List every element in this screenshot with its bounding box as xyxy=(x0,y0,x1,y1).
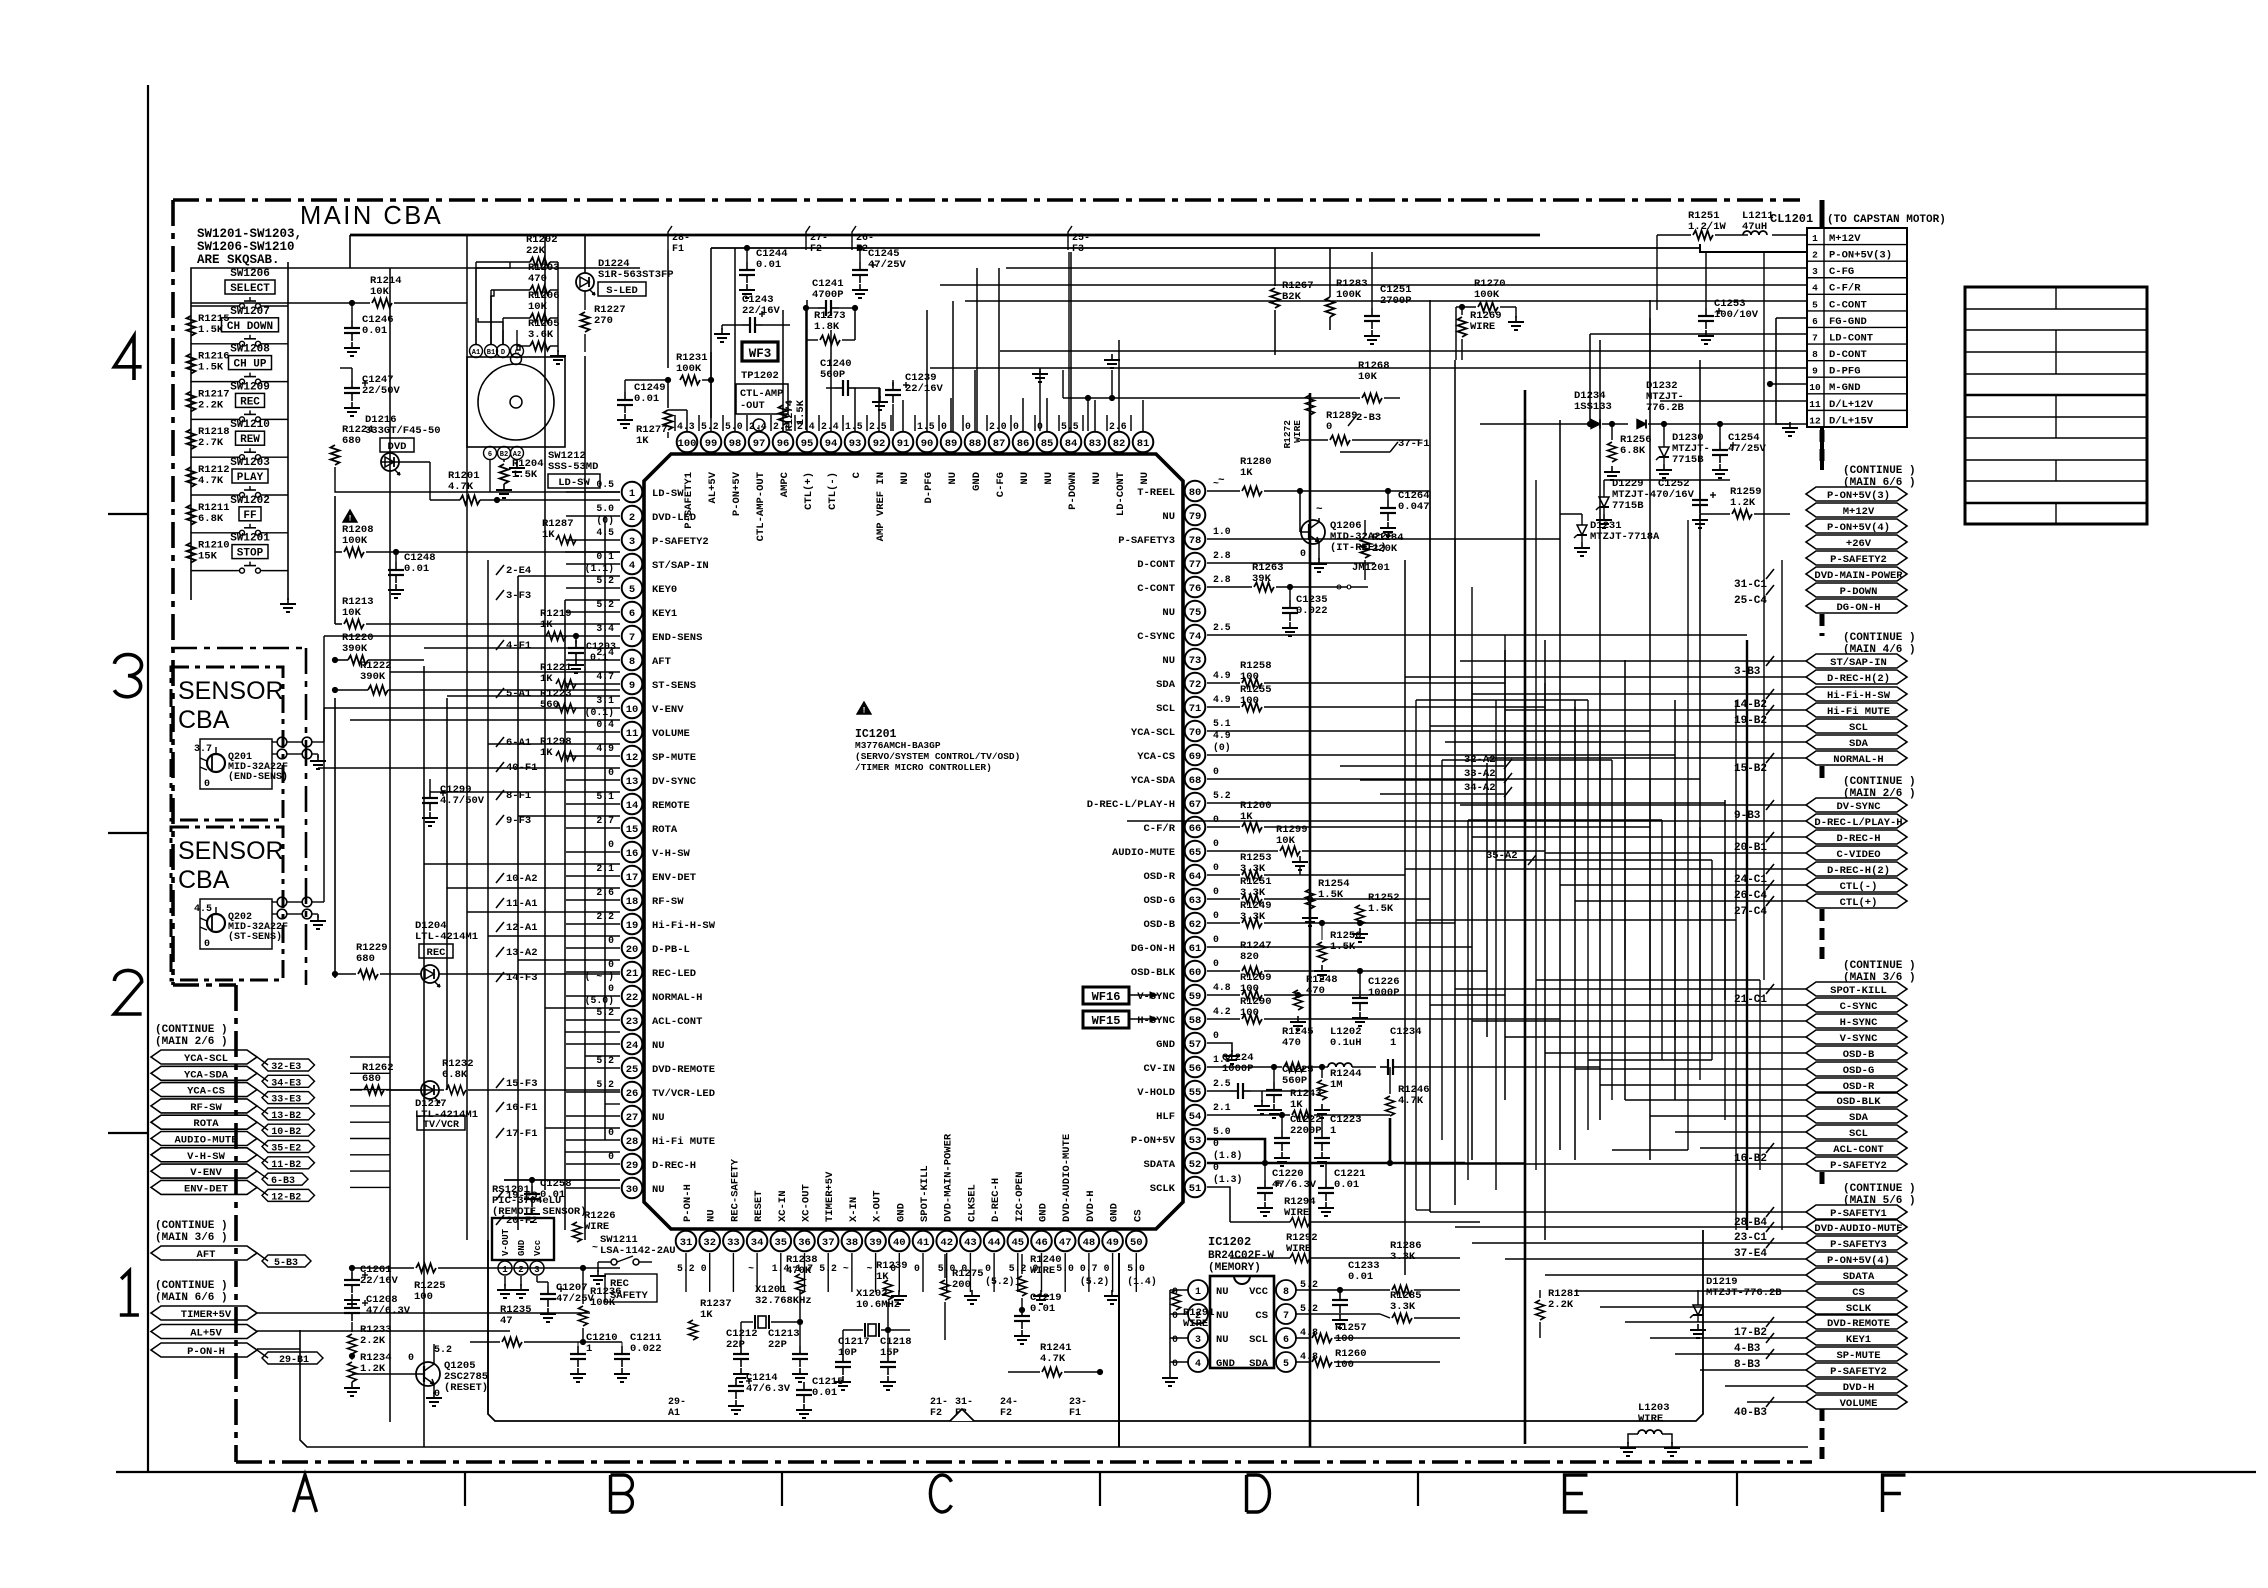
resistor R1215 xyxy=(187,316,196,336)
svg-text:(MAIN 3/6 ): (MAIN 3/6 ) xyxy=(155,1232,228,1244)
pin57 ground xyxy=(1207,1043,1232,1052)
svg-text:7: 7 xyxy=(1812,332,1818,343)
resistor R1218 xyxy=(187,429,196,449)
svg-text:6.8K: 6.8K xyxy=(198,513,224,525)
tag 28-F1 xyxy=(668,226,672,250)
svg-text:59: 59 xyxy=(1189,991,1202,1003)
tag 25-F3 xyxy=(1068,226,1072,250)
svg-text:89: 89 xyxy=(945,438,958,450)
svg-text:27: 27 xyxy=(626,1112,639,1124)
svg-text:3.7: 3.7 xyxy=(194,744,212,755)
svg-text:~: ~ xyxy=(843,1263,849,1274)
svg-text:0: 0 xyxy=(608,983,614,994)
svg-text:(1.8): (1.8) xyxy=(1213,1150,1242,1161)
svg-text:32.768KHz: 32.768KHz xyxy=(755,1295,812,1307)
svg-text:X-IN: X-IN xyxy=(848,1197,860,1222)
svg-text:73: 73 xyxy=(1189,655,1202,667)
sensor ground xyxy=(312,913,318,915)
svg-text:V-OUT: V-OUT xyxy=(501,1228,511,1256)
IC1201 pin 67 D-REC-L/PLAY-H xyxy=(1185,793,1206,814)
svg-text:P-ON+5V(4): P-ON+5V(4) xyxy=(1827,1255,1890,1267)
svg-text:LD-CONT: LD-CONT xyxy=(1829,332,1873,344)
wire vertical bus x390 xyxy=(389,268,391,1422)
svg-text:25: 25 xyxy=(626,1064,639,1076)
blank revision table xyxy=(1965,287,2147,524)
svg-text:27-C4: 27-C4 xyxy=(1734,906,1767,918)
svg-text:SW1201: SW1201 xyxy=(230,533,270,545)
svg-text:29-B1: 29-B1 xyxy=(279,1355,309,1366)
net label Hi-Fi MUTE xyxy=(1806,703,1907,717)
svg-text:680: 680 xyxy=(342,435,361,447)
svg-text:12-A1: 12-A1 xyxy=(506,922,538,934)
IC1201 pin 99 AL+5V xyxy=(701,432,722,453)
svg-text:RF-SW: RF-SW xyxy=(190,1102,222,1114)
svg-text:WIRE: WIRE xyxy=(1183,1318,1208,1330)
svg-text:C-CONT: C-CONT xyxy=(1137,583,1175,595)
bottom loop wire A xyxy=(488,1230,1703,1421)
svg-text:M3776AMCH-BA3GP: M3776AMCH-BA3GP xyxy=(855,740,941,751)
svg-text:22/16V: 22/16V xyxy=(905,383,944,395)
svg-text:74: 74 xyxy=(1189,631,1202,643)
svg-text:1.5K: 1.5K xyxy=(795,399,807,425)
svg-text:22/16V: 22/16V xyxy=(360,1275,399,1287)
svg-text:1K: 1K xyxy=(700,1309,713,1321)
extra right grid horizontals xyxy=(1416,699,1588,701)
svg-text:(1.3): (1.3) xyxy=(1213,1174,1242,1185)
svg-text:9-F3: 9-F3 xyxy=(506,815,531,827)
IC1201 pin 4 ST/SAP-IN xyxy=(622,554,643,575)
net label P-ON-H xyxy=(151,1343,257,1357)
svg-text:10-B2: 10-B2 xyxy=(271,1127,301,1138)
svg-text:I2C-OPEN: I2C-OPEN xyxy=(1014,1172,1026,1222)
svg-text:37-F1: 37-F1 xyxy=(1398,438,1430,450)
net label DG-ON-H xyxy=(1806,599,1907,613)
net label SP-MUTE xyxy=(1806,1347,1907,1361)
svg-text:7715B: 7715B xyxy=(1612,500,1644,512)
svg-text:(MEMORY): (MEMORY) xyxy=(1208,1262,1261,1274)
svg-text:P-ON+5V: P-ON+5V xyxy=(731,471,743,516)
IC1201 pin 97 CTL-AMP-OUT xyxy=(749,432,770,453)
svg-text:LSA-1142-2AU: LSA-1142-2AU xyxy=(600,1245,676,1257)
IC1201 pin 87 C-FG xyxy=(989,432,1010,453)
net label P-SAFETY2 xyxy=(1806,1157,1907,1171)
svg-text:(END-SENS): (END-SENS) xyxy=(228,771,288,783)
IC1201 pin 66 C-F/R xyxy=(1185,817,1206,838)
svg-text:V-SYNC: V-SYNC xyxy=(1137,991,1176,1003)
svg-text:13-B2: 13-B2 xyxy=(271,1111,301,1122)
svg-text:680: 680 xyxy=(362,1073,381,1085)
svg-text:AFT: AFT xyxy=(197,1249,216,1261)
svg-text:51: 51 xyxy=(1189,1183,1202,1195)
svg-text:10K: 10K xyxy=(1276,835,1296,847)
svg-text:TP1202: TP1202 xyxy=(741,370,779,382)
IC1201 pin 50 CS xyxy=(1126,1231,1147,1252)
grounds under GND pins xyxy=(898,1290,900,1296)
svg-text:P-ON-H: P-ON-H xyxy=(682,1184,694,1222)
svg-text:P-SAFETY1: P-SAFETY1 xyxy=(1830,1208,1887,1220)
net label V-SYNC xyxy=(1806,1030,1907,1044)
svg-text:97: 97 xyxy=(753,438,766,450)
svg-text:200: 200 xyxy=(952,1279,971,1291)
net label DVD-H xyxy=(1806,1379,1907,1393)
IC1201 pin 19 Hi-Fi-H-SW xyxy=(622,914,643,935)
svg-text:D-PFG: D-PFG xyxy=(1829,366,1861,378)
svg-text:11: 11 xyxy=(626,728,639,740)
IC1201 pin 1 LD-SW xyxy=(622,482,643,503)
svg-text:27-: 27- xyxy=(810,233,828,244)
frame right vertical below title xyxy=(1820,200,1824,228)
svg-text:0: 0 xyxy=(1213,934,1219,945)
svg-text:5.1: 5.1 xyxy=(1213,718,1231,729)
svg-text:~: ~ xyxy=(1218,475,1225,487)
svg-text:100: 100 xyxy=(1335,1333,1354,1345)
svg-text:10: 10 xyxy=(1809,382,1821,393)
svg-text:4: 4 xyxy=(1195,1359,1201,1370)
IC1202 pin 1 xyxy=(1188,1280,1208,1300)
svg-text:D-REC-H(2): D-REC-H(2) xyxy=(1827,673,1890,685)
IC1201 pin 34 RESET xyxy=(747,1231,768,1252)
svg-text:680: 680 xyxy=(356,953,375,965)
wire pin52 thick xyxy=(1207,1162,1465,1165)
bottom pin stub wires xyxy=(685,1253,687,1292)
svg-text:1000P: 1000P xyxy=(1222,1063,1254,1075)
frame lower-left vertical dash-dot xyxy=(234,985,238,1462)
svg-text:(REMOTE SENSOR): (REMOTE SENSOR) xyxy=(492,1206,587,1218)
svg-text:NU: NU xyxy=(899,472,911,485)
IC1201 pin 26 TV/VCR-LED xyxy=(622,1082,643,1103)
frame left dash-dot xyxy=(171,200,175,985)
svg-text:C-VIDEO: C-VIDEO xyxy=(1836,849,1880,861)
svg-text:4: 4 xyxy=(1812,283,1818,294)
svg-text:1: 1 xyxy=(1390,1037,1396,1049)
svg-text:1: 1 xyxy=(1812,233,1818,244)
svg-text:CBA: CBA xyxy=(178,706,230,734)
sheet border vertical line xyxy=(147,85,149,1472)
frame top dash-dot xyxy=(173,198,1800,202)
svg-text:AMP VREF IN: AMP VREF IN xyxy=(875,472,887,541)
svg-text:LTL-4214M1: LTL-4214M1 xyxy=(415,931,478,943)
svg-text:37: 37 xyxy=(822,1237,835,1249)
svg-text:CBA: CBA xyxy=(178,866,230,894)
IC1201 pin 83 NU xyxy=(1085,432,1106,453)
svg-text:D-REC-H: D-REC-H xyxy=(652,1160,696,1172)
svg-text:F2: F2 xyxy=(810,244,822,255)
svg-text:F2: F2 xyxy=(856,244,868,255)
IC1201 pin 23 ACL-CONT xyxy=(622,1010,643,1031)
svg-text:AUDIO-MUTE: AUDIO-MUTE xyxy=(1112,847,1175,859)
svg-text:F2: F2 xyxy=(930,1408,942,1419)
svg-text:WF16: WF16 xyxy=(1092,990,1121,1004)
svg-text:2-E4: 2-E4 xyxy=(506,565,531,577)
svg-text:26-: 26- xyxy=(856,233,874,244)
svg-text:1K: 1K xyxy=(542,529,555,541)
svg-text:2.5: 2.5 xyxy=(1213,1078,1231,1089)
IC1201 pin 21 REC-LED xyxy=(622,962,643,983)
svg-text:3: 3 xyxy=(1195,1335,1201,1346)
left hex stack wires to bus xyxy=(350,1056,390,1058)
IC1201 pin 86 NU xyxy=(1013,432,1034,453)
svg-text:D-PB-L: D-PB-L xyxy=(652,944,690,956)
tag stubs left side xyxy=(496,565,504,575)
svg-text:19-B2: 19-B2 xyxy=(1734,715,1767,727)
svg-text:64: 64 xyxy=(1189,871,1202,883)
IC1201 pin 78 P-SAFETY3 xyxy=(1185,529,1206,550)
svg-text:B1: B1 xyxy=(487,349,495,357)
net label V-ENV xyxy=(151,1164,257,1178)
transistor Q201 xyxy=(200,739,272,789)
svg-text:SDA: SDA xyxy=(1156,679,1176,691)
svg-text:1000P: 1000P xyxy=(1368,987,1400,999)
IC1201 pin 13 DV-SYNC xyxy=(622,770,643,791)
svg-text:C-F/R: C-F/R xyxy=(1143,823,1175,835)
svg-text:0: 0 xyxy=(1213,814,1219,825)
svg-text:15-B2: 15-B2 xyxy=(1734,763,1767,775)
svg-text:(0): (0) xyxy=(1213,742,1231,753)
svg-text:6: 6 xyxy=(629,608,635,620)
svg-text:DG-ON-H: DG-ON-H xyxy=(1131,943,1175,955)
svg-text:91: 91 xyxy=(897,438,910,450)
svg-text:1.5K: 1.5K xyxy=(1368,903,1394,915)
svg-text:560P: 560P xyxy=(1282,1075,1307,1087)
svg-text:SDATA: SDATA xyxy=(1143,1159,1175,1171)
svg-text:1: 1 xyxy=(1330,1125,1336,1137)
svg-text:SW1206: SW1206 xyxy=(230,268,270,280)
svg-text:~: ~ xyxy=(1316,504,1323,516)
svg-text:RF-SW: RF-SW xyxy=(652,896,684,908)
wire timer5v run xyxy=(257,1312,352,1314)
svg-text:GND: GND xyxy=(1109,1203,1121,1222)
svg-text:DVD-AUDIO-MUTE: DVD-AUDIO-MUTE xyxy=(1061,1134,1073,1222)
IC1201 pin 94 CTL(-) xyxy=(821,432,842,453)
svg-text:36: 36 xyxy=(798,1237,811,1249)
IC1201 pin 53 P-ON+5V xyxy=(1185,1129,1206,1150)
svg-text:MAIN CBA: MAIN CBA xyxy=(300,202,443,230)
svg-text:~: ~ xyxy=(748,1263,754,1274)
svg-text:NU: NU xyxy=(652,1040,665,1052)
svg-text:32-E3: 32-E3 xyxy=(271,1062,301,1073)
svg-text:2.5: 2.5 xyxy=(1213,622,1231,633)
IC1202 pin 2 xyxy=(1188,1304,1208,1324)
IC1201 pin 90 D-PFG xyxy=(917,432,938,453)
svg-text:33: 33 xyxy=(727,1237,740,1249)
svg-text:CL1201: CL1201 xyxy=(1770,212,1813,226)
resistor R1211 xyxy=(187,505,196,525)
svg-text:22: 22 xyxy=(626,992,639,1004)
svg-text:33-A2: 33-A2 xyxy=(1464,768,1496,780)
sheet border bottom line xyxy=(116,1471,2256,1473)
svg-text:1.5K: 1.5K xyxy=(198,362,224,374)
svg-text:4.8: 4.8 xyxy=(1213,982,1231,993)
svg-text:5.0: 5.0 xyxy=(596,503,614,514)
svg-text:A1: A1 xyxy=(668,1408,680,1419)
svg-text:XC-OUT: XC-OUT xyxy=(801,1184,813,1222)
svg-text:13-A2: 13-A2 xyxy=(506,947,538,959)
IC1202 pin 5 xyxy=(1276,1352,1296,1372)
svg-text:2.2K: 2.2K xyxy=(198,399,224,411)
svg-text:0: 0 xyxy=(1300,549,1306,560)
svg-text:1.5: 1.5 xyxy=(845,421,863,432)
svg-text:0.01: 0.01 xyxy=(634,393,659,405)
svg-text:WF3: WF3 xyxy=(749,347,772,361)
IC1202 left rail xyxy=(1169,1290,1171,1362)
svg-text:1K: 1K xyxy=(540,747,553,759)
svg-text:TV/VCR-LED: TV/VCR-LED xyxy=(652,1088,715,1100)
svg-text:T-REEL: T-REEL xyxy=(1137,487,1175,499)
grid column ticks xyxy=(464,1472,466,1506)
svg-text:71: 71 xyxy=(1189,703,1202,715)
switch bank top wire xyxy=(191,268,640,300)
svg-text:IC1202: IC1202 xyxy=(1208,1235,1251,1249)
svg-text:SDA: SDA xyxy=(1249,1358,1269,1370)
IC1201 pin 38 X-IN xyxy=(842,1231,863,1252)
svg-text:2.5: 2.5 xyxy=(869,421,887,432)
svg-text:4.7/50V: 4.7/50V xyxy=(440,795,485,807)
svg-text:3: 3 xyxy=(1812,266,1818,277)
svg-text:YCA-CS: YCA-CS xyxy=(1137,751,1175,763)
svg-text:16-F1: 16-F1 xyxy=(506,1102,538,1114)
svg-text:(RESET): (RESET) xyxy=(444,1382,488,1394)
svg-text:58: 58 xyxy=(1189,1015,1202,1027)
svg-text:100K: 100K xyxy=(590,1297,616,1309)
net label ACL-CONT xyxy=(1806,1141,1907,1155)
svg-text:P-ON+5V(3): P-ON+5V(3) xyxy=(1827,490,1890,502)
horizontal pin wires to verticals xyxy=(1300,490,1430,492)
svg-text:(CONTINUE ): (CONTINUE ) xyxy=(1843,465,1916,477)
svg-text:76: 76 xyxy=(1189,583,1202,595)
IC1201 pin 46 GND xyxy=(1031,1231,1052,1252)
svg-text:WIRE: WIRE xyxy=(1638,1413,1663,1425)
svg-text:15-F3: 15-F3 xyxy=(506,1078,538,1090)
svg-text:(CONTINUE ): (CONTINUE ) xyxy=(1843,1183,1916,1195)
svg-text:66: 66 xyxy=(1189,823,1202,835)
svg-text:DV-SYNC: DV-SYNC xyxy=(652,776,697,788)
svg-text:1.2K: 1.2K xyxy=(1730,497,1756,509)
grid row ticks xyxy=(108,513,148,515)
svg-text:V-ENV: V-ENV xyxy=(652,704,684,716)
svg-text:39: 39 xyxy=(869,1237,882,1249)
svg-text:35-E2: 35-E2 xyxy=(271,1144,301,1155)
svg-text:1K: 1K xyxy=(1290,1099,1303,1111)
svg-text:!: ! xyxy=(348,515,353,524)
svg-text:0: 0 xyxy=(1213,910,1219,921)
svg-text:2.6: 2.6 xyxy=(1109,421,1127,432)
net label SCLK xyxy=(1806,1300,1907,1314)
svg-text:5.0: 5.0 xyxy=(1213,1126,1231,1137)
svg-text:WF15: WF15 xyxy=(1092,1014,1121,1028)
wire vertical bus x565 xyxy=(564,600,566,1230)
svg-text:1.0: 1.0 xyxy=(1213,526,1231,537)
svg-text:NU: NU xyxy=(706,1209,718,1222)
svg-text:61: 61 xyxy=(1189,943,1202,955)
svg-text:C-CONT: C-CONT xyxy=(1829,299,1867,311)
svg-text:35: 35 xyxy=(774,1237,787,1249)
svg-text:5.2: 5.2 xyxy=(434,1345,452,1356)
svg-text:(CONTINUE ): (CONTINUE ) xyxy=(1843,960,1916,972)
svg-text:31: 31 xyxy=(680,1237,693,1249)
IC1201 pin 79 NU xyxy=(1185,505,1206,526)
svg-text:AL+5V: AL+5V xyxy=(707,471,719,503)
svg-text:NU: NU xyxy=(1162,511,1175,523)
svg-text:Vcc: Vcc xyxy=(533,1240,543,1256)
svg-text:+26V: +26V xyxy=(1846,538,1872,550)
svg-text:NU: NU xyxy=(1216,1310,1229,1322)
IC1201 pin 2 DVD-LED xyxy=(622,506,643,527)
frame bottom dash-dot xyxy=(236,1460,1812,1464)
frame left jog dash-dot xyxy=(173,983,236,987)
svg-text:OSD-B: OSD-B xyxy=(1143,919,1175,931)
IC1201 pin 63 OSD-G xyxy=(1185,889,1206,910)
svg-text:CS: CS xyxy=(1132,1209,1144,1222)
svg-text:43: 43 xyxy=(964,1237,977,1249)
svg-text:TIMER+5V: TIMER+5V xyxy=(824,1171,836,1222)
svg-text:14-B2: 14-B2 xyxy=(1734,699,1767,711)
svg-text:Hi-Fi MUTE: Hi-Fi MUTE xyxy=(1827,706,1890,718)
IC1202 pin 3 xyxy=(1188,1328,1208,1348)
tag 27-F2 xyxy=(806,226,810,250)
svg-text:30: 30 xyxy=(626,1184,639,1196)
svg-text:7: 7 xyxy=(629,632,635,644)
wire OSD-R xyxy=(1206,874,1208,876)
svg-text:2: 2 xyxy=(629,512,635,524)
svg-text:2.0: 2.0 xyxy=(989,421,1007,432)
svg-text:C-FG: C-FG xyxy=(995,472,1007,497)
svg-text:ACL-CONT: ACL-CONT xyxy=(652,1016,702,1028)
wire vertical bus x605 xyxy=(604,516,606,1140)
svg-text:REC-LED: REC-LED xyxy=(652,968,696,980)
svg-text:M+12V: M+12V xyxy=(1829,233,1861,245)
net label P-ON+5V(3) xyxy=(1806,487,1907,501)
svg-text:34-E3: 34-E3 xyxy=(271,1078,301,1089)
IC1201 pin 27 NU xyxy=(622,1106,643,1127)
IC1201 pin 52 SDATA xyxy=(1185,1153,1206,1174)
IC1202 pin 7 xyxy=(1276,1304,1296,1324)
svg-text:2: 2 xyxy=(1812,250,1818,261)
svg-text:ARE SKQSAB.: ARE SKQSAB. xyxy=(197,253,280,267)
svg-text:21-: 21- xyxy=(930,1397,948,1408)
wire D/L+12V row xyxy=(1660,400,1807,402)
IC1201 pin 76 C-CONT xyxy=(1185,577,1206,598)
svg-text:15P: 15P xyxy=(880,1347,899,1359)
svg-text:776.2B: 776.2B xyxy=(1646,402,1685,414)
svg-text:34-A2: 34-A2 xyxy=(1464,782,1496,794)
IC1201 pin 14 REMOTE xyxy=(622,794,643,815)
svg-text:D/L+15V: D/L+15V xyxy=(1829,415,1874,427)
net label D-REC-H(2) xyxy=(1806,862,1907,876)
svg-text:2.1: 2.1 xyxy=(1213,1102,1231,1113)
wires resistor ladder to rails xyxy=(550,261,558,263)
svg-text:23-C1: 23-C1 xyxy=(1734,1232,1767,1244)
resistor R1212 xyxy=(187,467,196,487)
svg-text:470: 470 xyxy=(528,273,547,285)
net label OSD-B xyxy=(1806,1046,1907,1060)
svg-text:390K: 390K xyxy=(342,643,368,655)
svg-text:5.5: 5.5 xyxy=(1061,421,1079,432)
svg-text:A1: A1 xyxy=(472,349,480,357)
svg-text:100: 100 xyxy=(414,1291,433,1303)
svg-text:F1: F1 xyxy=(1069,1408,1081,1419)
svg-text:22P: 22P xyxy=(726,1339,745,1351)
svg-text:SW1202: SW1202 xyxy=(230,495,270,507)
svg-text:24-: 24- xyxy=(1000,1397,1018,1408)
svg-text:99: 99 xyxy=(705,438,718,450)
svg-text:DV-SYNC: DV-SYNC xyxy=(1836,801,1881,813)
svg-text:SDA: SDA xyxy=(1849,738,1869,750)
svg-text:SP-MUTE: SP-MUTE xyxy=(652,752,696,764)
svg-text:17: 17 xyxy=(626,872,639,884)
svg-text:2.2K: 2.2K xyxy=(360,1335,386,1347)
svg-text:SW1203: SW1203 xyxy=(230,457,270,469)
svg-text:Hi-Fi-H-SW: Hi-Fi-H-SW xyxy=(652,920,716,932)
